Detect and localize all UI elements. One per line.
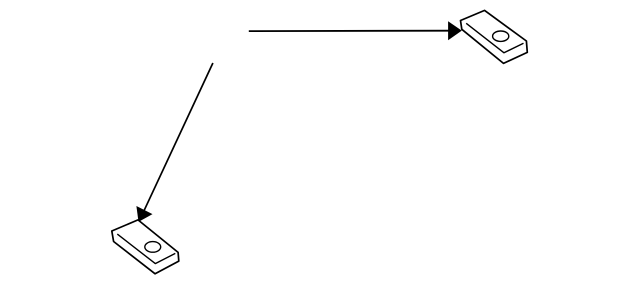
plate 1 hole	[493, 31, 509, 41]
arrowhead of lower leader	[136, 206, 152, 222]
arrowhead of upper leader	[448, 21, 462, 40]
plate 1 rim edge	[466, 23, 523, 53]
plate 2 (lower-left retainer) outline	[112, 220, 179, 274]
wire: leader line to lower-left plate	[144, 63, 213, 210]
plate 2 rim edge	[117, 234, 175, 264]
plate 1 (upper-right retainer) outline	[461, 10, 528, 63]
wire: leader line to upper-right plate	[249, 30, 450, 32]
plate 2 hole	[145, 242, 161, 253]
